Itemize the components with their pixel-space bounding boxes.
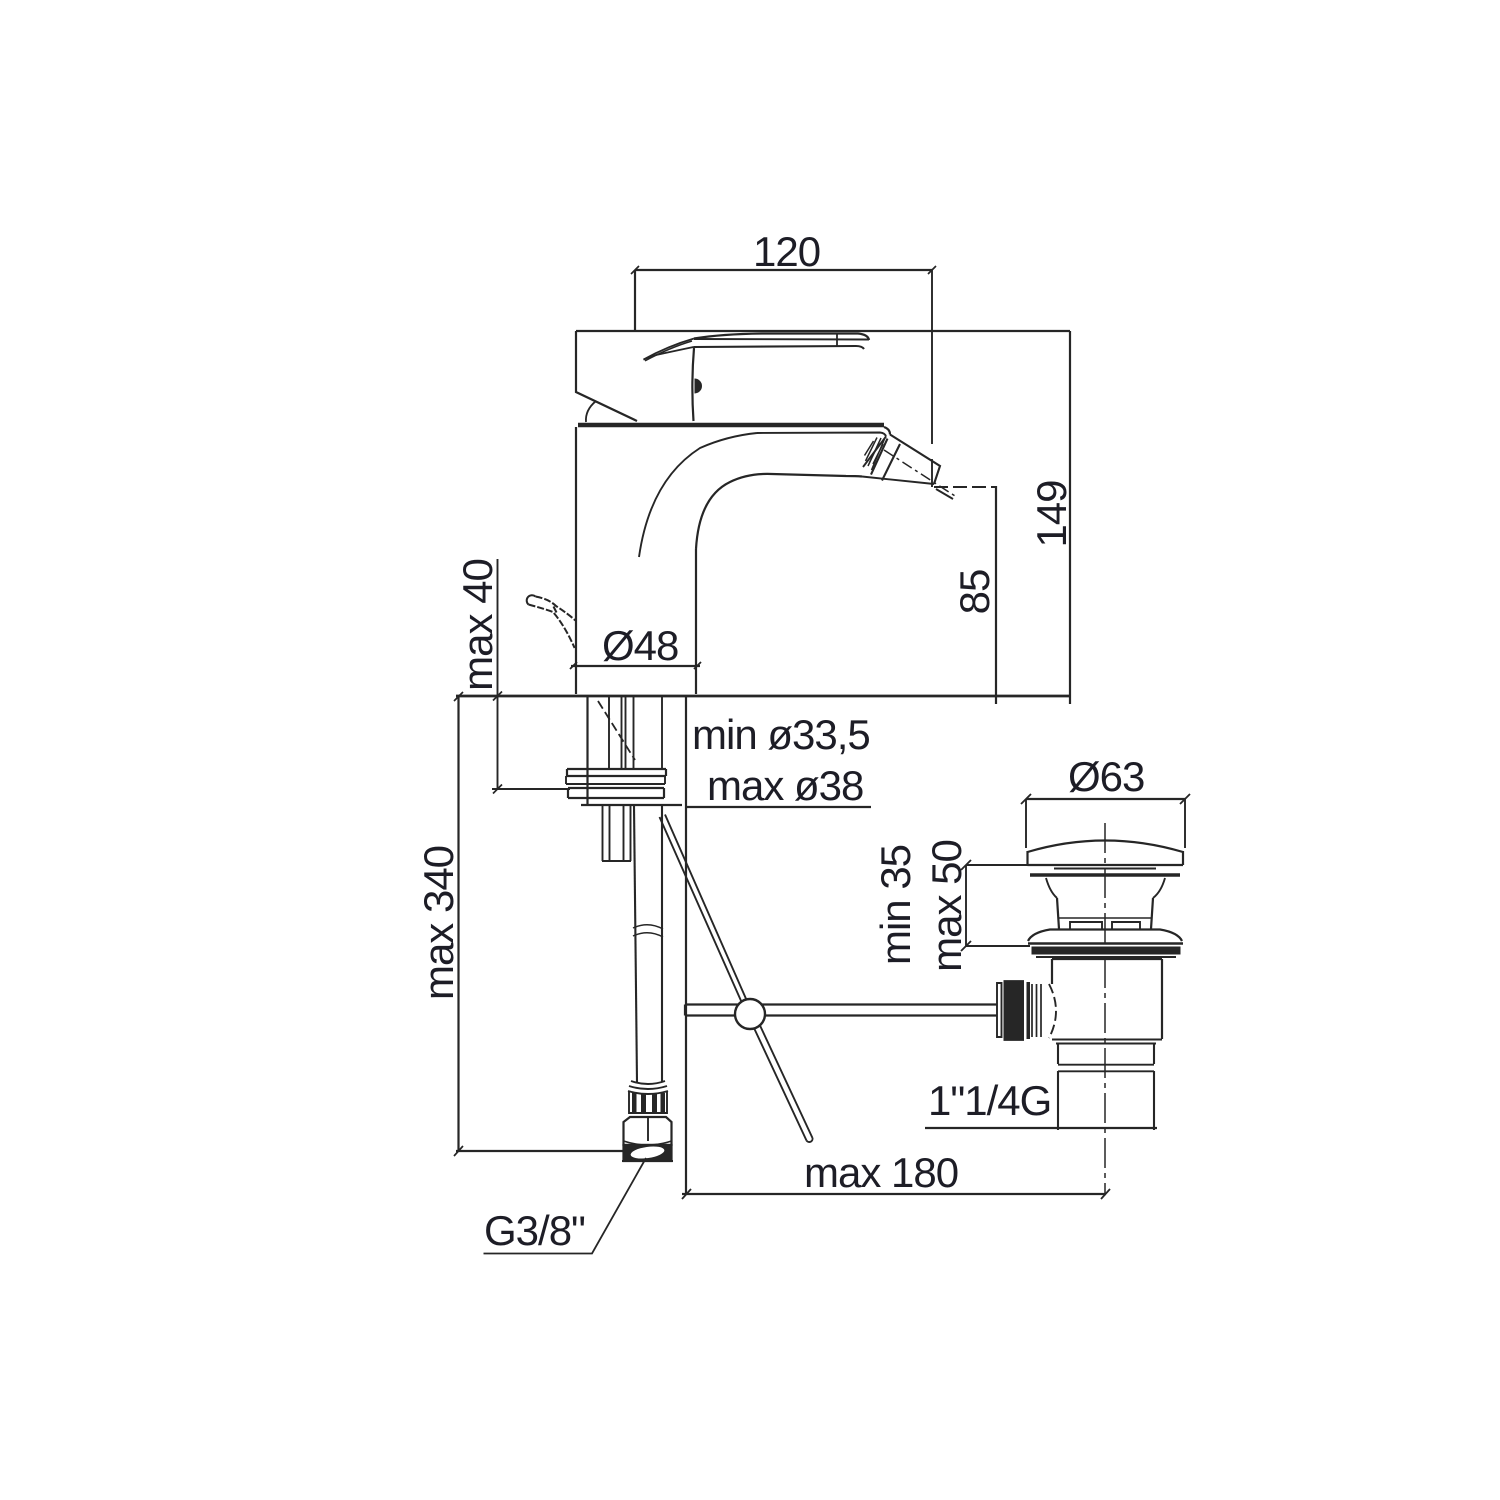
tube upper (1052, 958, 1162, 960)
pop-up rod upper segment (660, 815, 748, 1004)
max340 dim (457, 697, 459, 1151)
centerline (1104, 823, 1106, 1194)
hex nut (624, 1117, 672, 1145)
pop-up rod lower segment (754, 1026, 813, 1141)
ball joint (735, 999, 765, 1029)
body left edge (575, 427, 577, 694)
body upper-left edge (576, 331, 637, 421)
underline 1"1/4G + tube bottom (925, 1127, 1157, 1129)
max ø38 leader underline (686, 806, 871, 808)
svg-text:Ø63: Ø63 (1068, 753, 1144, 800)
svg-text:120: 120 (753, 228, 820, 275)
flexible hose (634, 806, 637, 1082)
svg-text:149: 149 (1028, 480, 1075, 547)
narrower tube (1058, 1043, 1154, 1064)
149 dim line (1069, 331, 1071, 704)
below-deck shank verticals (586, 697, 588, 805)
min35/max50 bracket (965, 865, 967, 946)
G3/8 fitting: olive rings (628, 1081, 668, 1094)
svg-text:min 35: min 35 (872, 845, 919, 965)
upper body sides (1057, 898, 1153, 929)
seam right corner down to aerator (884, 427, 890, 435)
aerator axis dash-dot (884, 450, 955, 496)
flange (1028, 930, 1182, 942)
lever left beak upper (double stroke) (644, 339, 695, 360)
slot detail (1070, 922, 1140, 929)
tick at aerator tip (936, 489, 953, 499)
branch socket bulge (1049, 984, 1056, 1038)
G3/8 leader (484, 1158, 647, 1254)
aerator nozzle (862, 435, 955, 497)
Ø48 dim line (571, 665, 700, 667)
faucet body top line + extension to 149 dim (576, 330, 1070, 332)
spout inner curve (696, 474, 862, 549)
mounting washer bars (567, 769, 666, 776)
svg-text:min ø33,5: min ø33,5 (692, 711, 870, 758)
dashed diagonal in shank (598, 701, 635, 760)
knurled ring (629, 1092, 667, 1113)
mounting nut bar (568, 788, 664, 798)
thread relief (1058, 1065, 1154, 1072)
step (1052, 1040, 1162, 1044)
lever blade top line (694, 334, 869, 341)
Ø63 dim (1026, 798, 1185, 800)
85 extension dashes (934, 486, 996, 488)
svg-text:Ø48: Ø48 (602, 622, 678, 669)
lever blade bottom line (694, 346, 865, 349)
neck (1046, 878, 1165, 898)
svg-text:max 340: max 340 (415, 846, 462, 1000)
spout top thin line (757, 433, 886, 437)
svg-text:max 40: max 40 (454, 559, 501, 691)
lever blade mid line (694, 338, 869, 341)
branch adjuster (997, 983, 1002, 1037)
lever left beak lower (656, 347, 694, 355)
svg-text:85: 85 (951, 570, 998, 615)
deck / counter line (456, 695, 1071, 698)
threaded tail tube (603, 805, 631, 861)
120 dimension (635, 269, 932, 271)
cap dome (1028, 841, 1184, 853)
heavy seam line (578, 423, 884, 428)
svg-text:max ø38: max ø38 (707, 762, 863, 809)
lever neck front edge (692, 348, 694, 421)
max180 dim line (682, 1193, 1106, 1195)
sleeve bottom (581, 804, 682, 806)
lever tip step tick (836, 334, 838, 347)
body right edge (695, 549, 697, 694)
dark bottom band with lens (624, 1145, 672, 1161)
svg-text:max 50: max 50 (923, 840, 970, 972)
svg-text:1"1/4G: 1"1/4G (928, 1077, 1051, 1124)
back pop-up knob (527, 595, 576, 648)
threaded section (1058, 1071, 1154, 1130)
witness line under faucet (685, 806, 687, 1194)
lever beak tip (644, 355, 657, 360)
cartridge cap arc (586, 401, 596, 422)
indicator dot (695, 379, 703, 394)
85 dim line (995, 486, 997, 704)
svg-text:G3/8": G3/8" (484, 1207, 585, 1254)
plate under cap (1054, 868, 1156, 870)
spout outer silhouette arc (639, 433, 757, 557)
max40 dim (497, 559, 499, 789)
svg-text:max 180: max 180 (804, 1149, 958, 1196)
horizontal actuation rod (685, 1005, 997, 1016)
